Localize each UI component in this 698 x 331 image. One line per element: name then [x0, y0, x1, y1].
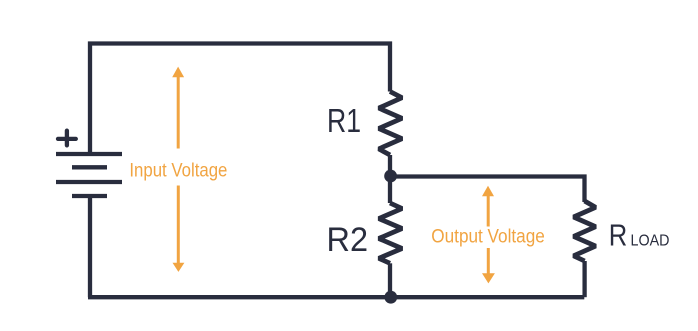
resistor RLOAD [574, 201, 596, 261]
annotation arrow: Output Voltage (double-headed) [482, 186, 495, 284]
wire: battery positive up, top rail, down to R1 top [90, 44, 390, 155]
svg-text:R1: R1 [327, 102, 361, 139]
label Output Voltage [431, 226, 545, 248]
label Input Voltage [129, 159, 227, 181]
wire: bottom rail (ground return) [88, 295, 584, 299]
annotation arrow: Input Voltage (double-headed) [172, 67, 184, 272]
resistor R1 [379, 92, 402, 156]
wire: divider node right and down to RLOAD top [391, 177, 585, 203]
svg-text:R: R [609, 218, 628, 253]
svg-text:Input Voltage: Input Voltage [129, 159, 227, 181]
label R2 [327, 221, 369, 259]
label R1 [327, 102, 361, 139]
wire: R1 bottom through divider node to R2 top [388, 155, 392, 203]
junction: bottom rail node [384, 291, 397, 304]
resistor R2 [379, 203, 402, 263]
svg-text:Output Voltage: Output Voltage [431, 226, 545, 248]
junction: divider output node [384, 170, 397, 183]
svg-text:R2: R2 [327, 221, 369, 259]
wire: RLOAD bottom to bottom rail [582, 261, 586, 297]
battery B1 (input voltage source) plates [56, 154, 122, 196]
wire: battery negative down to bottom rail [88, 196, 92, 297]
battery B1 positive terminal marker + [58, 131, 76, 146]
svg-text:LOAD: LOAD [631, 233, 670, 250]
wire: R2 bottom to bottom-rail junction [388, 263, 392, 297]
label RLOAD [609, 218, 670, 253]
